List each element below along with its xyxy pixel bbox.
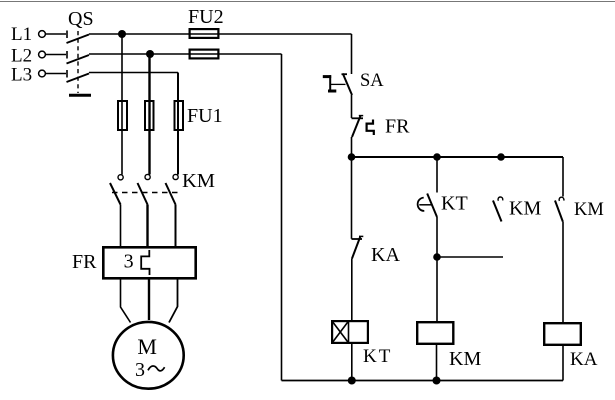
svg-text:KA: KA	[371, 244, 400, 266]
svg-text:M: M	[137, 334, 157, 359]
svg-text:QS: QS	[68, 8, 94, 30]
svg-text:FR: FR	[72, 251, 97, 273]
svg-text:3: 3	[135, 359, 145, 381]
svg-text:KT: KT	[363, 346, 392, 367]
svg-text:KA: KA	[570, 349, 598, 370]
svg-text:FU1: FU1	[187, 105, 223, 127]
svg-text:SA: SA	[360, 71, 384, 91]
svg-text:KM: KM	[449, 348, 481, 370]
svg-text:KM: KM	[509, 198, 541, 220]
svg-text:KT: KT	[441, 193, 468, 215]
svg-text:L2: L2	[11, 46, 32, 67]
svg-text:KM: KM	[574, 200, 604, 220]
svg-text:FR: FR	[385, 116, 410, 138]
svg-text:KM: KM	[182, 170, 215, 192]
svg-text:L1: L1	[11, 24, 32, 45]
svg-text:FU2: FU2	[188, 6, 224, 28]
svg-text:3: 3	[124, 251, 134, 273]
svg-text:L3: L3	[11, 65, 32, 86]
